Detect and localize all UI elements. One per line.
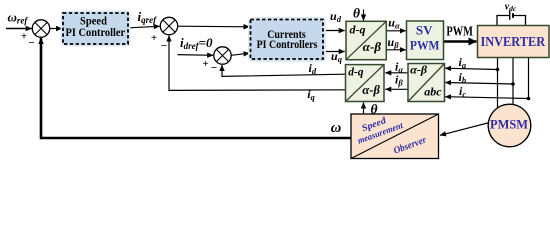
svg-text:d-q: d-q	[350, 23, 366, 37]
svg-text:PI Controllers: PI Controllers	[257, 37, 318, 51]
svg-text:iq: iq	[307, 87, 315, 102]
svg-text:PWM: PWM	[410, 38, 440, 53]
svg-text:iqref: iqref	[138, 9, 158, 25]
svg-text:ωref: ωref	[8, 9, 29, 25]
svg-text:INVERTER: INVERTER	[480, 35, 545, 50]
svg-text:α-β: α-β	[410, 63, 428, 77]
svg-text:uβ: uβ	[388, 35, 400, 50]
svg-text:α-β: α-β	[362, 83, 380, 97]
svg-text:+: +	[202, 58, 208, 70]
svg-text:θ: θ	[353, 6, 360, 21]
svg-text:ic: ic	[459, 84, 466, 99]
svg-text:θ: θ	[371, 101, 378, 116]
svg-text:−: −	[28, 37, 34, 49]
svg-text:SV: SV	[416, 22, 433, 37]
svg-text:−: −	[211, 62, 217, 74]
svg-text:idref=0: idref=0	[180, 35, 213, 51]
svg-text:d-q: d-q	[348, 66, 364, 78]
svg-text:+: +	[151, 32, 157, 44]
svg-text:vdc: vdc	[505, 1, 517, 13]
svg-text:PI Controller: PI Controller	[66, 25, 126, 39]
svg-text:ia: ia	[459, 55, 467, 70]
svg-text:α-β: α-β	[363, 39, 382, 54]
svg-text:abc: abc	[424, 84, 442, 98]
svg-text:ib: ib	[459, 70, 467, 85]
svg-text:id: id	[309, 61, 317, 76]
svg-text:iβ: iβ	[395, 73, 403, 88]
svg-text:PWM: PWM	[446, 24, 473, 39]
svg-text:+: +	[21, 30, 27, 42]
svg-text:−: −	[161, 40, 167, 52]
svg-text:ud: ud	[330, 9, 342, 24]
svg-text:ω: ω	[331, 120, 342, 136]
svg-text:PMSM: PMSM	[490, 117, 528, 131]
svg-text:uα: uα	[388, 16, 400, 31]
